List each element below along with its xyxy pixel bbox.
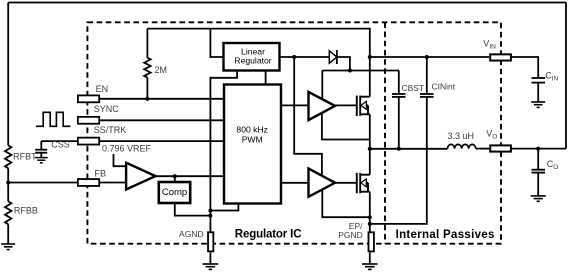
svg-text:CBST: CBST <box>402 83 425 93</box>
wire FB <box>8 182 126 184</box>
ground below CO <box>531 196 546 201</box>
capacitor CIN <box>532 77 546 79</box>
svg-text:800 kHz: 800 kHz <box>236 125 268 135</box>
pin AGND <box>208 232 213 251</box>
wire high driver return <box>322 113 370 140</box>
capacitor CINint <box>426 57 428 94</box>
wire SS/TRK <box>41 140 224 142</box>
wire PWM to high driver <box>281 104 309 106</box>
capacitor CSS <box>40 141 42 150</box>
wire PWM to low driver <box>281 182 309 184</box>
svg-text:3.3 uH: 3.3 uH <box>448 131 475 141</box>
resistor RFBT <box>5 145 11 168</box>
ground below AGND pin <box>209 253 211 265</box>
wire 2M to EN <box>146 78 148 99</box>
node VO CO <box>536 147 540 151</box>
svg-text:RFBT: RFBT <box>13 152 37 162</box>
capacitor CO <box>537 149 539 170</box>
svg-text:CINint: CINint <box>432 81 456 91</box>
transistor low-side FET <box>357 173 370 193</box>
node AGND pwm <box>208 209 212 213</box>
pin EP/PGND <box>369 232 374 251</box>
op-amp error amplifier <box>126 163 155 190</box>
wire VREF to op-amp <box>114 154 127 166</box>
wire diode cathode to boost <box>337 57 350 71</box>
svg-text:SS/TRK: SS/TRK <box>94 125 127 135</box>
svg-text:EN: EN <box>96 84 109 94</box>
pin SS/TRK <box>78 138 99 145</box>
wire VCC down to low driver <box>294 57 322 176</box>
wire VIN pin to CIN <box>511 57 538 78</box>
wire op-amp output to PWM <box>156 175 225 177</box>
wire RFBB to ground <box>7 224 9 244</box>
wire RFBT to FB node <box>7 168 9 201</box>
resistor RFBB <box>5 201 11 224</box>
node FB divider <box>6 181 10 185</box>
resistor 2M <box>144 58 150 78</box>
wire AGND vertical <box>210 71 237 232</box>
wire VO pin to CO and feedback <box>511 148 566 150</box>
driver high-side <box>309 92 336 120</box>
wire EN <box>88 98 224 100</box>
wire LR input from VIN bus <box>210 29 223 57</box>
pin VO <box>490 145 511 151</box>
svg-text:PWM: PWM <box>242 134 263 144</box>
wire 2M top <box>146 29 148 58</box>
svg-text:CSS: CSS <box>51 140 70 150</box>
wire low FET source to EP <box>369 192 371 232</box>
node EP low return <box>368 215 372 219</box>
node EP CINint <box>368 222 372 226</box>
svg-text:Comp: Comp <box>162 187 187 198</box>
wire Comp bottom return <box>175 204 211 216</box>
wire LR output VCC <box>280 56 330 58</box>
wire high driver to gate <box>335 104 356 106</box>
wire feedback left upper <box>7 3 9 146</box>
inductor 3.3 uH <box>448 144 476 148</box>
svg-text:AGND: AGND <box>179 229 204 239</box>
pwm block 800 kHz PWM <box>224 85 281 204</box>
wire low driver to gate <box>335 182 356 184</box>
node VIN drain <box>368 55 372 59</box>
transistor high-side FET <box>357 96 370 116</box>
diode boost D1 <box>329 51 337 63</box>
wire VIN rail <box>370 56 489 58</box>
svg-text:Internal Passives: Internal Passives <box>396 229 495 241</box>
wire low driver return <box>322 190 370 217</box>
node CBST bottom <box>397 147 401 151</box>
ground below CIN <box>531 102 545 107</box>
comp block Comp <box>159 182 190 203</box>
node EN 2M <box>145 97 149 101</box>
node VCC <box>292 55 296 59</box>
node AGND comp <box>208 214 212 218</box>
ground below RFBB <box>1 244 15 250</box>
node switch <box>368 147 372 151</box>
wire boost to high driver <box>321 71 323 100</box>
ground below CSS <box>35 158 48 163</box>
capacitor CBST <box>398 71 400 95</box>
svg-text:PGND: PGND <box>338 230 363 240</box>
wire AGND to PWM bottom <box>210 204 238 211</box>
wire switch node vertical <box>369 114 371 174</box>
svg-text:FB: FB <box>95 169 107 179</box>
ground below EP/PGND pin <box>369 253 371 265</box>
node boost <box>348 69 352 73</box>
wire inductor to VO pin <box>476 148 489 150</box>
wire feedback top <box>8 2 566 4</box>
wire LR to PWM connector <box>265 71 267 85</box>
wire switch node to inductor <box>370 148 448 150</box>
pin EN <box>78 95 99 102</box>
dashed box Regulator IC and Internal Passives <box>87 22 501 243</box>
wire SYNC <box>88 119 224 121</box>
driver low-side <box>309 169 336 197</box>
square wave symbol <box>36 112 71 126</box>
svg-text:SYNC: SYNC <box>94 104 120 114</box>
svg-text:Regulator: Regulator <box>234 56 271 66</box>
node CINint top <box>425 55 429 59</box>
svg-text:RFBB: RFBB <box>14 206 38 216</box>
wire to Comp top <box>174 176 176 182</box>
node comp output <box>173 174 177 178</box>
regulator block Linear Regulator <box>224 43 280 71</box>
wire feedback right <box>565 3 567 149</box>
svg-text:0.796 VREF: 0.796 VREF <box>102 144 152 154</box>
wire boost rail <box>322 70 399 72</box>
svg-text:Regulator IC: Regulator IC <box>235 229 302 241</box>
pin FB <box>78 179 99 186</box>
pin VIN <box>490 54 511 60</box>
wire VIN top bus <box>147 29 369 97</box>
svg-text:2M: 2M <box>155 65 168 75</box>
pin SYNC <box>78 117 99 124</box>
